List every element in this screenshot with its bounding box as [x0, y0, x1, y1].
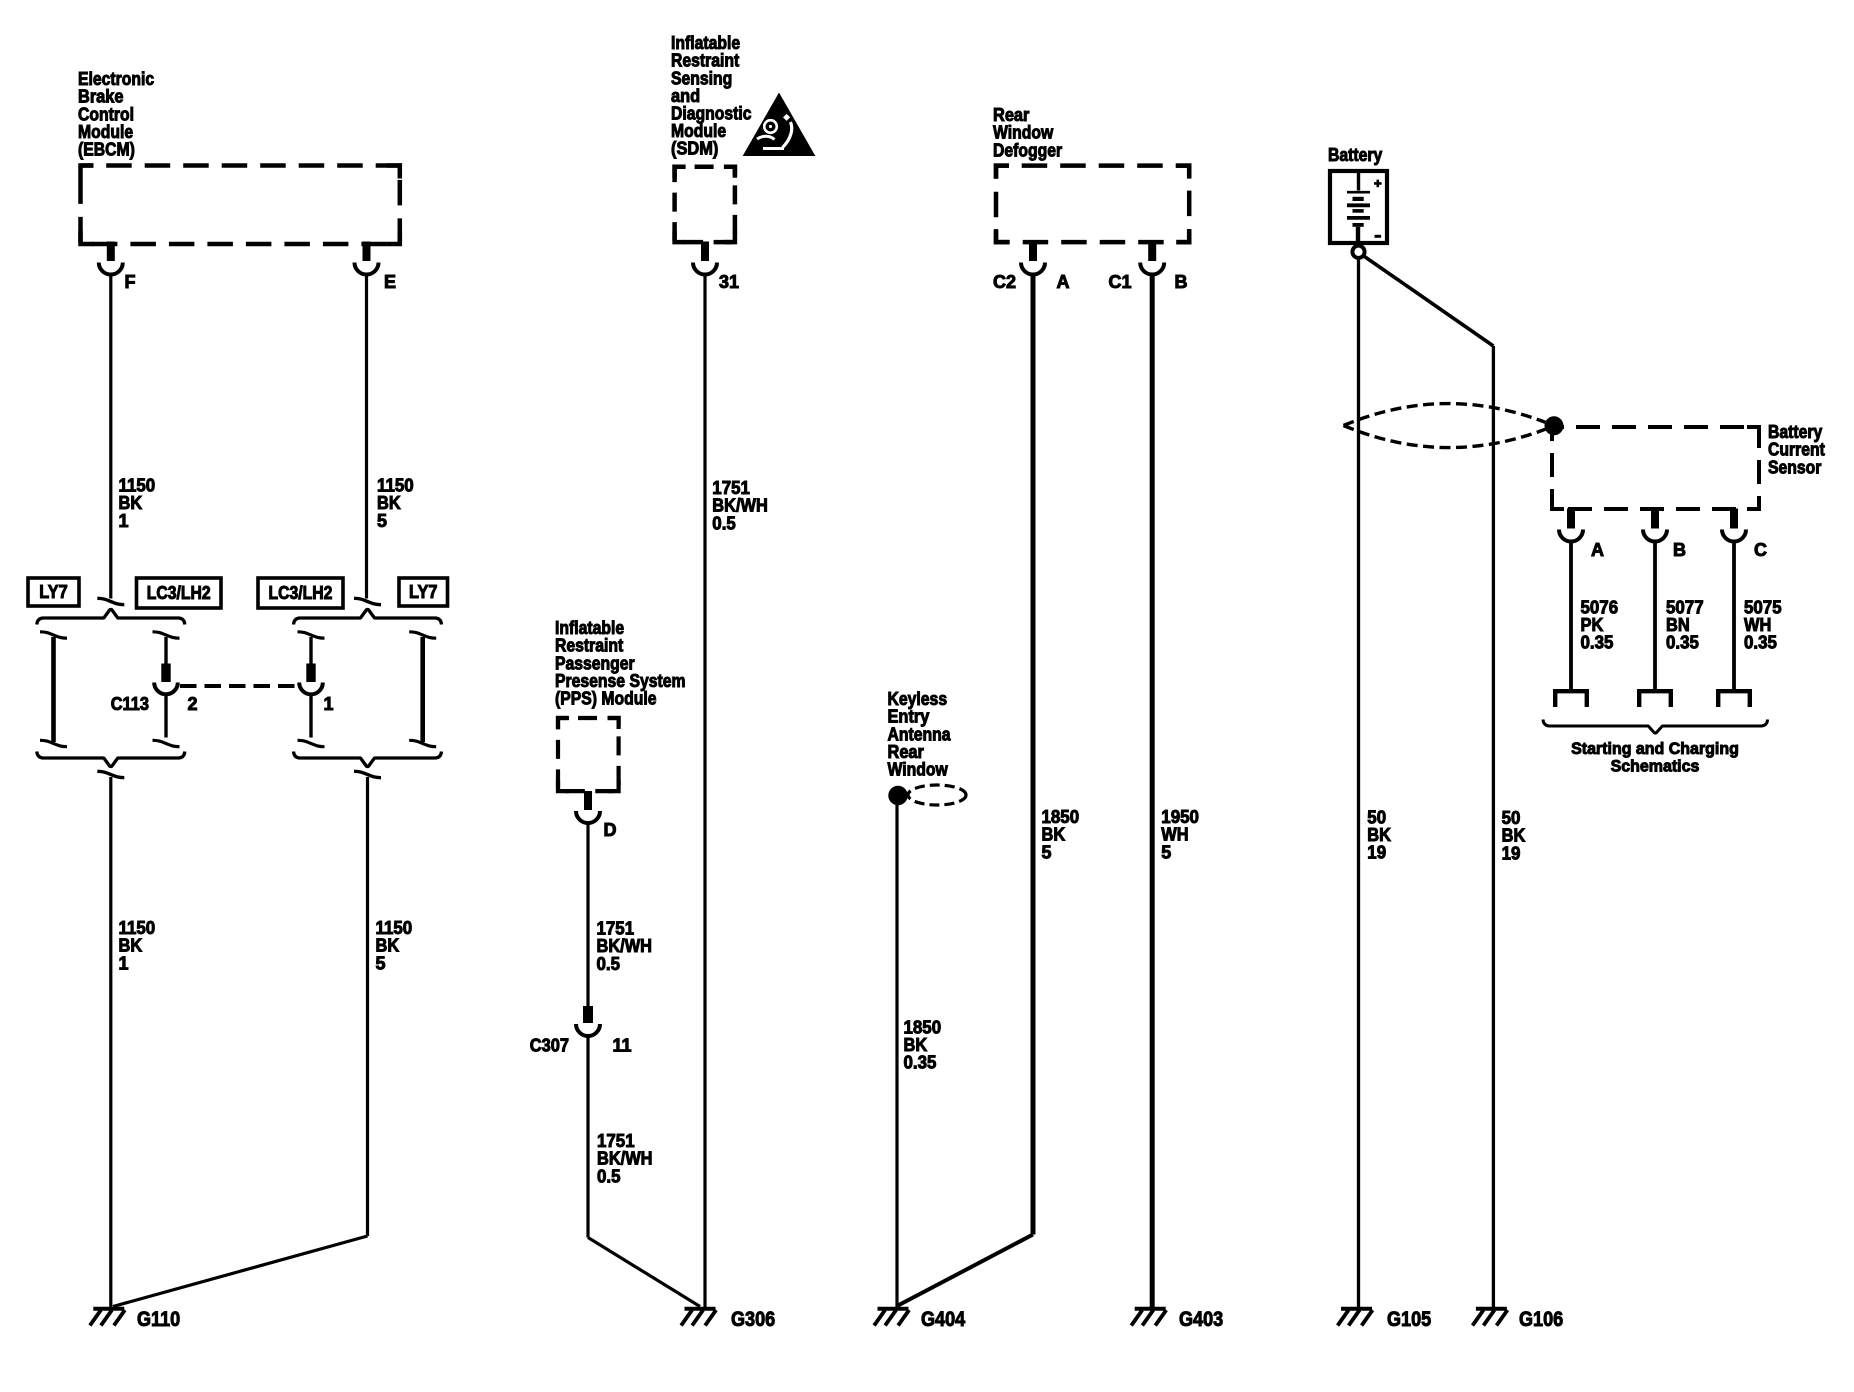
svg-text:0.35: 0.35	[1581, 633, 1614, 653]
SIR caution triangle icon	[744, 94, 815, 156]
svg-text:1: 1	[119, 953, 129, 973]
splice pack pin terminal 2 (left branch LC3/LH2)	[153, 632, 180, 638]
defogger pin A terminal (connector C2)	[1030, 242, 1037, 261]
svg-text:A: A	[1591, 540, 1604, 560]
svg-text:5: 5	[1042, 842, 1052, 862]
destination brace	[1543, 720, 1768, 734]
wire 1150 BK segment from EBCM pin E	[365, 273, 368, 599]
wire 5075 WH from sensor pin C	[1732, 540, 1736, 690]
battery cell symbol	[1347, 171, 1370, 243]
svg-text:Battery: Battery	[1328, 145, 1382, 165]
battery negative node (circle)	[1352, 246, 1364, 258]
wire 1150 BK 5 diagonal to G110	[113, 1236, 368, 1307]
svg-text:(EBCM): (EBCM)	[78, 140, 135, 160]
wire 5076 PK from sensor pin A	[1569, 540, 1573, 690]
svg-text:Schematics: Schematics	[1611, 757, 1700, 776]
splice pack plain terminal (left branch LY7)	[40, 632, 67, 638]
engine option label LC3/LH2 (right)	[258, 578, 343, 608]
svg-text:LY7: LY7	[409, 582, 438, 602]
svg-text:C307: C307	[530, 1036, 569, 1056]
svg-text:C2: C2	[993, 272, 1016, 292]
current sensor junction dot	[1545, 417, 1563, 435]
wire 1751 BK/WH below C307	[586, 1034, 589, 1238]
battery plus terminal mark	[1374, 180, 1382, 188]
svg-text:0.35: 0.35	[1744, 633, 1777, 653]
svg-text:G105: G105	[1387, 1308, 1431, 1331]
connector C307 pin 11 terminal	[584, 1007, 593, 1023]
svg-text:Starting and Charging: Starting and Charging	[1571, 739, 1739, 758]
splice pack pin terminal 1 (right branch LC3/LH2)	[298, 632, 325, 638]
defogger pin B terminal (connector C1)	[1149, 242, 1156, 261]
splice pack bottom brace (left branch)	[37, 752, 185, 767]
wire 1150 BK 5 lower segment	[366, 777, 369, 1236]
sensor pin C terminal	[1731, 509, 1738, 528]
splice pack top brace (left branch)	[37, 610, 185, 625]
ground G106	[1476, 1307, 1507, 1311]
svg-text:Window: Window	[888, 760, 949, 780]
sensor pin B terminal	[1652, 509, 1659, 528]
wire 1850 BK diagonal to G404	[897, 1235, 1033, 1307]
ground G110	[93, 1307, 124, 1311]
splice pack top brace (right branch)	[294, 610, 442, 625]
wire 1751 BK/WH from SDM pin 31 to G306	[703, 273, 706, 1308]
svg-text:G110: G110	[137, 1308, 180, 1331]
wire 1751 BK/WH diagonal to G306	[588, 1238, 700, 1307]
svg-text:(PPS) Module: (PPS) Module	[555, 689, 657, 709]
svg-text:F: F	[125, 272, 136, 292]
svg-text:B: B	[1673, 540, 1686, 560]
wire 1150 BK 1 lower segment	[109, 777, 112, 1307]
antenna loop (dashed ellipse)	[908, 785, 966, 805]
Battery Current Sensor box (dashed)	[1552, 427, 1759, 509]
svg-text:A: A	[1057, 272, 1070, 292]
svg-text:5: 5	[1161, 842, 1171, 862]
wire 50 BK 19 vertical (to G106)	[1492, 346, 1495, 1307]
PPS pin D terminal	[585, 792, 592, 810]
off-page connector (wire 5076)	[1553, 689, 1589, 707]
svg-text:LY7: LY7	[39, 582, 68, 602]
svg-text:C1: C1	[1108, 272, 1131, 292]
EBCM pin F terminal	[107, 242, 114, 261]
SDM pin 31 terminal	[702, 242, 709, 261]
ground G105	[1341, 1307, 1372, 1311]
svg-text:1: 1	[324, 694, 334, 714]
svg-text:G403: G403	[1179, 1308, 1223, 1331]
Rear Window Defogger box (dashed)	[996, 166, 1189, 243]
svg-text:19: 19	[1367, 843, 1386, 863]
svg-text:B: B	[1175, 272, 1188, 292]
svg-text:E: E	[384, 272, 396, 292]
ground G404	[878, 1307, 909, 1311]
wire 1751 BK/WH from PPS pin D	[586, 821, 589, 1006]
svg-text:Sensor: Sensor	[1768, 457, 1821, 477]
svg-text:0.5: 0.5	[597, 1166, 621, 1186]
svg-text:G306: G306	[731, 1308, 775, 1331]
splice pack plain terminal (right branch LY7)	[409, 632, 436, 638]
svg-text:D: D	[604, 820, 617, 840]
dashed mating line C113 pin 2 to pin 1	[180, 684, 296, 688]
wire 1850 BK from defogger pin A	[1031, 273, 1036, 1235]
battery box	[1330, 171, 1387, 243]
wire 50 BK 19 (to G105)	[1357, 258, 1360, 1307]
splice pack bottom brace (right branch)	[294, 752, 442, 767]
svg-text:LC3/LH2: LC3/LH2	[269, 583, 333, 603]
inline connection wave (wire E to splice pack)	[354, 598, 381, 604]
sensor pin A terminal	[1568, 509, 1575, 528]
EBCM pin E terminal	[363, 242, 370, 261]
inline connection wave (splice pack to wire, left)	[97, 771, 124, 777]
battery minus terminal mark	[1375, 235, 1382, 238]
svg-text:11: 11	[613, 1036, 632, 1056]
svg-text:0.35: 0.35	[904, 1053, 937, 1073]
antenna junction dot	[889, 786, 907, 804]
svg-text:0.35: 0.35	[1666, 633, 1699, 653]
svg-text:G106: G106	[1519, 1308, 1563, 1331]
wire 1950 WH from defogger pin B to G403	[1150, 273, 1155, 1308]
svg-text:5: 5	[376, 953, 386, 973]
SDM module box (dashed)	[675, 167, 735, 242]
current sensor clamp (dashed lens around battery wires)	[1344, 404, 1555, 448]
engine option label LC3/LH2 (left)	[137, 578, 222, 608]
engine option label LY7 (right)	[399, 578, 448, 606]
engine option label LY7 (left)	[28, 578, 79, 606]
svg-text:(SDM): (SDM)	[671, 139, 718, 159]
svg-text:0.5: 0.5	[597, 954, 621, 974]
svg-text:31: 31	[719, 272, 739, 292]
wire 1850 BK from antenna to G404	[895, 804, 898, 1307]
inline connection wave (wire F to splice pack)	[97, 598, 124, 604]
ground G306	[685, 1307, 716, 1311]
svg-text:C113: C113	[111, 694, 149, 714]
wire 50 BK 19 diagonal from battery node	[1363, 256, 1493, 347]
svg-text:5: 5	[377, 511, 387, 531]
svg-text:19: 19	[1502, 843, 1521, 863]
svg-text:0.5: 0.5	[712, 513, 736, 533]
PPS module box (dashed)	[558, 718, 619, 791]
svg-text:Defogger: Defogger	[993, 140, 1062, 160]
svg-text:1: 1	[119, 511, 129, 531]
svg-text:LC3/LH2: LC3/LH2	[147, 583, 211, 603]
off-page connector (wire 5077)	[1637, 689, 1673, 707]
wire 5077 BN from sensor pin B	[1653, 540, 1657, 690]
off-page connector (wire 5075)	[1716, 689, 1752, 707]
svg-text:G404: G404	[921, 1308, 965, 1331]
wire 1150 BK segment from EBCM pin F	[109, 273, 112, 599]
ground G403	[1135, 1307, 1166, 1311]
svg-text:C: C	[1754, 540, 1767, 560]
inline connection wave (splice pack to wire, right)	[354, 771, 381, 777]
svg-text:2: 2	[188, 694, 198, 714]
EBCM module box (dashed)	[81, 166, 400, 245]
